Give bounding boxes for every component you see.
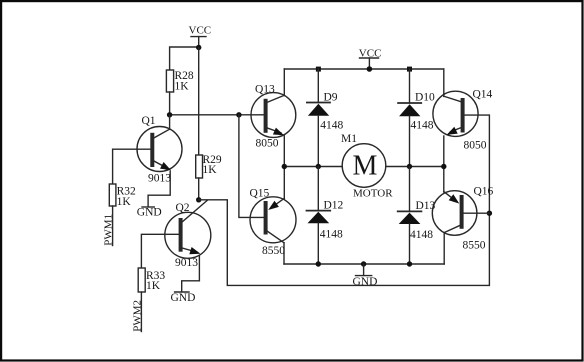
wire Q15 collector to bottom rail — [283, 243, 285, 264]
transistor Q1 — [137, 115, 182, 172]
svg-text:Q16: Q16 — [474, 185, 494, 197]
svg-text:VCC: VCC — [359, 47, 382, 59]
svg-text:PWM1: PWM1 — [103, 214, 115, 246]
resistor R32 — [109, 184, 116, 206]
node mid right Q14/Q16 — [441, 164, 446, 169]
wire Q1 base to R32 — [113, 149, 137, 184]
bottom rail — [284, 263, 444, 265]
svg-text:D12: D12 — [324, 200, 344, 212]
transistor Q13 — [251, 93, 296, 138]
mid rail left — [284, 166, 342, 168]
wire Q15 base branch — [239, 115, 264, 218]
wire Q13 collector to top rail — [283, 69, 285, 96]
wire Q13 emitter to mid rail — [283, 136, 285, 167]
svg-text:8550: 8550 — [262, 245, 285, 257]
wire Q16 emitter to mid rail — [443, 167, 445, 193]
diode D13 — [398, 167, 422, 265]
node Q16 base junction — [487, 211, 492, 216]
wire Q16 collector to bottom rail — [443, 233, 445, 264]
node junction Q15 branch — [236, 112, 241, 117]
wire R33 to PWM2 stub — [140, 292, 142, 332]
node junction R28/Q1 collector — [167, 112, 172, 117]
svg-text:8050: 8050 — [464, 140, 487, 152]
wire Q14 emitter to mid rail — [443, 136, 445, 167]
resistor R33 — [138, 268, 145, 292]
node mid left Q13/Q15 — [282, 164, 287, 169]
wire R29 bottom to Q2 collector node — [198, 178, 200, 200]
ground (bridge) — [356, 264, 372, 276]
wire Q2 emitter to GND — [182, 255, 200, 291]
wire R32 to PWM1 stub — [112, 206, 114, 246]
svg-text:GND: GND — [137, 207, 162, 219]
transistor Q15 — [250, 197, 296, 243]
VCC symbol (left) — [191, 37, 206, 48]
node D10 top — [407, 67, 412, 72]
svg-text:1K: 1K — [203, 164, 218, 176]
wire to Q16 base — [464, 212, 490, 214]
svg-text:Q13: Q13 — [255, 84, 275, 96]
svg-text:4148: 4148 — [411, 120, 434, 132]
svg-text:PWM2: PWM2 — [131, 300, 143, 332]
node mid D10/D13 — [407, 164, 412, 169]
top rail — [284, 68, 444, 70]
resistor R29 — [196, 155, 203, 178]
node mid D9/D12 — [316, 164, 321, 169]
node D9 top — [316, 67, 321, 72]
wire VCC node to R28 top — [170, 47, 199, 70]
wire VCC vertical to R29 — [198, 48, 200, 156]
svg-text:GND: GND — [171, 292, 196, 304]
svg-text:VCC: VCC — [189, 25, 212, 37]
svg-text:9013: 9013 — [175, 257, 198, 269]
wire Q2 base to R33 — [141, 234, 165, 268]
motor M1 — [342, 144, 386, 188]
node bottom D13 — [407, 261, 412, 266]
svg-text:M: M — [353, 151, 378, 182]
diode D9 — [307, 69, 330, 167]
svg-text:4148: 4148 — [410, 229, 433, 241]
wire Q2 collector to right drive line — [199, 115, 490, 285]
svg-text:8550: 8550 — [463, 240, 486, 252]
svg-text:4148: 4148 — [320, 119, 343, 131]
svg-text:9013: 9013 — [148, 172, 171, 184]
diode D12 — [307, 167, 331, 265]
mid rail right — [386, 166, 444, 168]
node bottom D12 — [316, 261, 321, 266]
node bottom GND — [361, 261, 366, 266]
svg-text:Q15: Q15 — [250, 188, 270, 200]
svg-text:M1: M1 — [341, 133, 357, 145]
svg-text:Q2: Q2 — [176, 202, 190, 214]
wire Q14 collector to top rail — [443, 69, 445, 96]
VCC symbol (bridge) — [360, 58, 379, 69]
svg-text:GND: GND — [353, 276, 378, 288]
svg-text:1K: 1K — [117, 196, 132, 208]
ground (Q1) — [142, 206, 154, 208]
diode D10 — [398, 69, 421, 167]
transistor Q16 — [432, 191, 477, 236]
node Q2 collector junction — [196, 197, 201, 202]
svg-text:1K: 1K — [175, 81, 190, 93]
wire base rail y=115 — [170, 114, 264, 116]
transistor Q14 — [433, 91, 478, 136]
resistor R28 — [166, 70, 173, 92]
svg-text:MOTOR: MOTOR — [353, 188, 393, 200]
svg-text:Q1: Q1 — [142, 115, 156, 127]
wire Q1 emitter to GND — [148, 171, 170, 207]
svg-text:1K: 1K — [146, 280, 161, 292]
node VCC top rail — [367, 66, 373, 72]
svg-text:4148: 4148 — [320, 228, 343, 240]
wire R28 bottom — [169, 92, 171, 115]
svg-text:D13: D13 — [416, 200, 436, 212]
ground (Q2) — [175, 291, 189, 293]
svg-text:Q14: Q14 — [473, 89, 493, 101]
transistor Q2 — [165, 200, 211, 258]
node VCC left junction — [196, 45, 201, 50]
svg-text:8050: 8050 — [256, 138, 279, 150]
svg-text:D9: D9 — [324, 91, 338, 103]
wire Q15 emitter to mid rail — [283, 167, 285, 200]
svg-text:D10: D10 — [415, 91, 435, 103]
